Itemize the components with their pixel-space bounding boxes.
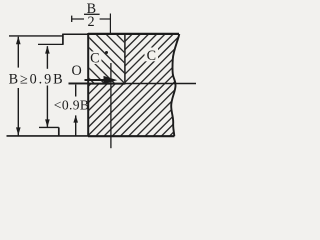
dimension line 3 lower segment with arrowhead [73, 115, 78, 122]
dimension line 1 upper segment with up arrow [17, 37, 19, 68]
bottom edge of hatched part [88, 135, 174, 137]
upper mid surface line [63, 33, 89, 35]
force arrow at O [85, 79, 108, 81]
hatching of key block C' (backslash direction) [39, 28, 185, 92]
dimension line 3 upper segment below O [75, 85, 77, 97]
top edge of hatched part [88, 33, 179, 35]
dimension line 2 lower segment with down arrow [46, 86, 48, 127]
baseline ground line [7, 135, 90, 137]
svg-text:O: O [71, 63, 81, 79]
svg-text:C: C [90, 50, 99, 66]
clearing behind label C [145, 48, 159, 62]
centre line through body [110, 63, 112, 148]
dimension B/2: fraction bar [84, 13, 100, 15]
wavy broken-out right edge [171, 34, 179, 136]
extension line at right of B/2 [109, 14, 111, 34]
recessed surface line [38, 43, 64, 45]
upper-left surface line [9, 35, 64, 37]
small riser edge [62, 34, 64, 45]
svg-text:B≥0.9B: B≥0.9B [9, 72, 65, 88]
left edge of hatched part [87, 33, 89, 137]
ledge surface line through part (extends both sides) [69, 83, 197, 85]
dimension B/2: left tick [71, 16, 73, 22]
dimension line 1 lower segment with down arrow [17, 88, 19, 136]
clearing behind label C' [89, 52, 102, 65]
dimension line 2 upper segment with up arrow [46, 46, 48, 69]
svg-text:C: C [147, 48, 156, 64]
joint line between block C' and body C [124, 34, 126, 85]
dimension B/2: line segments [72, 18, 84, 20]
svg-text:<0.9B: <0.9B [54, 98, 89, 113]
bottom-left step riser [58, 127, 60, 136]
hatching of L-shaped body C (slash direction) [16, 28, 286, 142]
paper background [0, 0, 196, 150]
svg-text:2: 2 [87, 14, 94, 30]
bottom-left step line [39, 126, 59, 128]
